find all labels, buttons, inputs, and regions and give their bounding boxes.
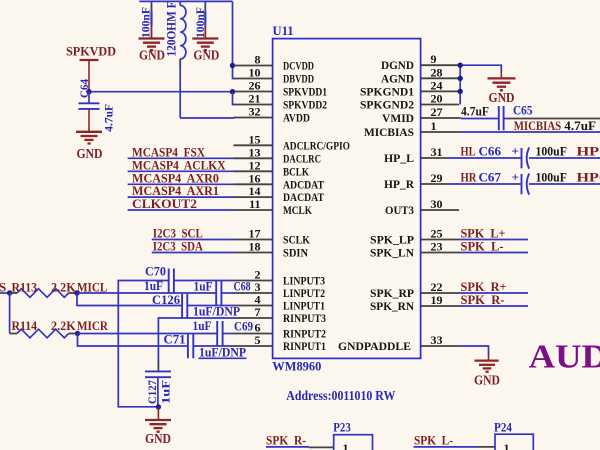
svg-text:1uF: 1uF [159, 380, 173, 404]
wire C68 to pin 3 [221, 292, 233, 294]
svg-text:SPKVDD1: SPKVDD1 [283, 85, 327, 99]
pin 4 LINPUT1 [234, 293, 326, 313]
node junction C127 gnd [156, 404, 161, 409]
pin 12 BCLK [234, 158, 310, 178]
svg-text:SPK R-: SPK R- [266, 433, 306, 448]
pin 24 SPKGND1 [360, 78, 459, 98]
wire net SPK R- [459, 305, 528, 307]
wire digital ground rail (pins 9/28/24/20) [460, 65, 501, 104]
ground (under right 100nF) [192, 39, 219, 64]
svg-text:100uF: 100uF [536, 144, 567, 159]
capacitor C65 4.7uF on VMID [461, 103, 600, 131]
wire to HPOUT left [529, 157, 600, 159]
svg-text:DCVDD: DCVDD [283, 59, 314, 73]
wire vertical rail to SPKVDD2 [233, 92, 236, 105]
svg-text:C69: C69 [234, 319, 253, 334]
svg-text:MICR: MICR [77, 318, 109, 333]
svg-text:C66: C66 [479, 144, 502, 159]
svg-text:SCLK: SCLK [283, 233, 311, 247]
svg-text:SPK_RN: SPK_RN [370, 299, 414, 313]
svg-text:SPKGND2: SPKGND2 [360, 98, 414, 112]
wire C70 to pin 2 [174, 280, 234, 282]
svg-text:C127: C127 [145, 380, 159, 404]
pin 18 SDIN [234, 240, 309, 260]
svg-text:CLKOUT2: CLKOUT2 [132, 196, 197, 211]
svg-text:GND: GND [139, 49, 165, 64]
svg-text:13: 13 [249, 145, 261, 159]
ground (under C127) [145, 407, 171, 447]
pin 25 SPK_LP [370, 227, 459, 247]
svg-text:Address:0011010 RW: Address:0011010 RW [286, 389, 395, 404]
svg-text:+: + [512, 170, 519, 185]
pin 23 SPK_LN [370, 240, 459, 260]
capacitor C (100nF left) [138, 1, 152, 38]
svg-text:GND: GND [77, 147, 103, 162]
pin 26 SPKVDD1 [235, 79, 328, 99]
wire net SPK L+ [459, 239, 528, 241]
pin 7 RINPUT3 [234, 305, 327, 325]
pin 31 HP_L [384, 145, 449, 165]
ground (under C64) [76, 132, 103, 162]
svg-text:100nF: 100nF [138, 7, 152, 38]
svg-text:RINPUT1: RINPUT1 [283, 339, 326, 353]
wire net CLKOUT2 [128, 209, 234, 211]
wire into left edge [0, 292, 10, 294]
svg-text:27: 27 [431, 105, 443, 119]
svg-text:SPKGND1: SPKGND1 [360, 84, 414, 98]
svg-text:WM8960: WM8960 [272, 359, 321, 374]
pin 6 RINPUT2 [234, 321, 327, 341]
wire top supply rail [139, 0, 232, 2]
svg-text:HL: HL [461, 144, 476, 159]
svg-text:30: 30 [431, 197, 443, 211]
pin 13 DACLRC [234, 145, 322, 165]
svg-text:SDIN: SDIN [283, 246, 308, 260]
wire SPK R- to P23 [266, 446, 309, 448]
pin 9 DGND [381, 52, 459, 72]
wire MICL down to LINPUT1 row [77, 293, 182, 306]
pin 1 MICBIAS [364, 119, 459, 139]
wire GNDPADDLE to ground [461, 346, 488, 355]
node junction pin 28 [458, 76, 463, 81]
inductor FB 120OHM ferrite [164, 1, 186, 66]
svg-text:BCLK: BCLK [283, 164, 310, 178]
pin 19 SPK_RN [370, 293, 459, 313]
svg-text:VMID: VMID [382, 111, 414, 125]
svg-text:P23: P23 [333, 420, 351, 435]
svg-text:+: + [512, 144, 519, 159]
svg-text:15: 15 [249, 132, 261, 146]
svg-text:SPK R-: SPK R- [461, 292, 505, 307]
svg-text:2.2K: 2.2K [51, 279, 77, 294]
svg-text:ADCLRC/GPIO: ADCLRC/GPIO [283, 138, 350, 152]
svg-text:R113: R113 [12, 279, 38, 294]
svg-text:SPK L-: SPK L- [414, 433, 453, 448]
node junction R113 left [7, 290, 12, 295]
svg-text:GND: GND [489, 91, 515, 106]
svg-text:GND: GND [193, 49, 219, 64]
pin 28 AGND [381, 65, 459, 85]
wire net MCASP4 AXR0 [128, 183, 234, 185]
svg-text:5: 5 [255, 333, 261, 347]
svg-text:26: 26 [249, 79, 261, 93]
svg-text:AVDD: AVDD [283, 111, 310, 125]
svg-text:OUT3: OUT3 [385, 203, 414, 217]
svg-text:7: 7 [255, 305, 261, 319]
wire net SPK L- [459, 252, 528, 254]
wire net I2C3 SCL [152, 239, 234, 241]
node junction MICR [75, 331, 80, 336]
svg-text:31: 31 [431, 145, 443, 159]
wire C71 to pin 5 [193, 345, 233, 347]
wire net MICBIAS [459, 131, 600, 133]
svg-text:DACLRC: DACLRC [283, 151, 321, 165]
node junction at C64 [86, 89, 91, 94]
power symbol SPKVDD [66, 44, 116, 92]
pin 5 RINPUT1 [234, 333, 327, 353]
ground (under left 100nF) [139, 39, 166, 64]
capacitor C126 1uF/DNP [152, 292, 240, 319]
svg-text:100uF: 100uF [536, 170, 567, 185]
wire ferrite to AVDD [179, 65, 181, 118]
wire net SPK R+ [459, 292, 528, 294]
svg-text:HP_R: HP_R [384, 177, 414, 191]
svg-text:1: 1 [504, 441, 510, 450]
svg-text:1: 1 [343, 441, 349, 450]
svg-text:10: 10 [249, 66, 261, 80]
wire to HPOUT right [529, 183, 600, 185]
pin 17 SCLK [234, 227, 311, 247]
svg-text:12: 12 [249, 158, 261, 172]
pin 11 MCLK [234, 197, 313, 217]
svg-text:DBVDD: DBVDD [283, 72, 314, 86]
pin 21 SPKVDD2 [235, 92, 328, 112]
svg-text:HR: HR [461, 170, 478, 185]
capacitor C66 100uF polarized [479, 144, 567, 169]
wire net MCASP4 ACLKX [128, 170, 234, 172]
svg-text:MICBIAS: MICBIAS [364, 125, 414, 139]
svg-text:SPK_LP: SPK_LP [370, 233, 414, 247]
svg-text:GNDPADDLE: GNDPADDLE [338, 339, 411, 353]
svg-text:MICBIAS: MICBIAS [514, 118, 562, 133]
capacitor C71 1uF/DNP [164, 332, 247, 360]
wire MICR to C69 [78, 333, 218, 335]
pin 29 HP_R [384, 171, 449, 191]
wire HP_L [449, 157, 521, 159]
svg-text:RINPUT3: RINPUT3 [283, 311, 326, 325]
pin 32 AVDD [234, 105, 311, 125]
pin 16 ADCDAT [234, 171, 325, 191]
IC U11 body [273, 39, 421, 359]
svg-text:33: 33 [431, 333, 443, 347]
wire net MCASP4 AXR1 [128, 196, 234, 198]
pin 33 GNDPADDLE [338, 333, 461, 353]
capacitor C64 4.7uF [77, 79, 116, 132]
svg-text:HPOUT2R: HPOUT2R [577, 170, 600, 185]
svg-text:MICL: MICL [77, 279, 108, 294]
node junction pin 9 [458, 62, 463, 67]
svg-text:SPKVDD: SPKVDD [66, 44, 116, 59]
connector P24 [494, 420, 533, 450]
svg-text:GND: GND [145, 432, 171, 447]
connector P23 [333, 420, 372, 450]
wire net MCASP4 FSX [128, 157, 234, 159]
svg-text:1uF: 1uF [193, 318, 212, 333]
pin 14 DACDAT [234, 184, 325, 204]
svg-text:R114: R114 [12, 318, 38, 333]
svg-text:DGND: DGND [381, 58, 414, 72]
wire ground bus left (LINPUT3 to C127 gnd) [118, 281, 168, 407]
svg-text:S: S [0, 279, 6, 294]
ground (right of IC) [488, 71, 516, 106]
wire net I2C3 SDA [152, 252, 234, 254]
svg-text:1uF: 1uF [144, 278, 163, 293]
wire RINPUT3 row to C127 [158, 318, 233, 360]
svg-text:SPK L-: SPK L- [461, 239, 504, 254]
pin 3 LINPUT2 [234, 280, 326, 300]
resistor R114 2.2K [10, 318, 78, 338]
wire vertical rail to DCVDD/DBVDD [233, 1, 236, 78]
capacitor C68 1uF [194, 278, 251, 305]
svg-text:C68: C68 [234, 279, 251, 294]
pin 30 OUT3 [385, 197, 459, 217]
pin 27 VMID [382, 105, 461, 125]
capacitor C67 100uF polarized [479, 170, 567, 195]
svg-text:19: 19 [431, 293, 443, 307]
wire C69 to pin 6 [223, 333, 234, 335]
pin 15 ADCLRC/GPIO [234, 132, 351, 152]
svg-text:SPKVDD2: SPKVDD2 [283, 98, 327, 112]
resistor R113 2.2K [10, 279, 77, 297]
capacitor C69 1uF [193, 318, 254, 346]
svg-text:17: 17 [249, 227, 261, 241]
svg-text:HPOUT2L: HPOUT2L [577, 144, 600, 159]
ground (GNDPADDLE) [474, 355, 500, 389]
svg-text:C70: C70 [145, 264, 166, 279]
svg-text:2.2K: 2.2K [51, 318, 77, 333]
node junction at pin 26 [230, 89, 235, 94]
svg-text:C65: C65 [513, 103, 533, 118]
svg-text:C126: C126 [152, 292, 180, 307]
svg-text:21: 21 [249, 92, 261, 106]
svg-text:20: 20 [431, 92, 443, 106]
svg-text:1: 1 [431, 119, 437, 133]
svg-text:AUDIO: AUDIO [529, 338, 600, 375]
pin 10 DBVDD [235, 66, 315, 86]
svg-text:4.7uF: 4.7uF [564, 118, 596, 133]
svg-text:SPK_LN: SPK_LN [370, 246, 414, 260]
svg-text:8: 8 [255, 53, 261, 67]
svg-text:C64: C64 [77, 79, 91, 98]
svg-text:29: 29 [431, 171, 443, 185]
pin 8 DCVDD [234, 53, 315, 73]
svg-text:32: 32 [249, 105, 261, 119]
svg-text:C67: C67 [479, 170, 502, 185]
capacitor C (100nF right) [193, 1, 207, 38]
svg-text:24: 24 [431, 78, 443, 92]
svg-text:C71: C71 [164, 332, 186, 347]
svg-text:1uF: 1uF [194, 278, 213, 293]
svg-text:DACDAT: DACDAT [283, 190, 324, 204]
svg-text:AGND: AGND [381, 71, 414, 85]
capacitor C127 1uF [145, 371, 173, 407]
svg-text:GND: GND [474, 373, 500, 388]
svg-text:120OHM F: 120OHM F [164, 1, 179, 56]
pin 22 SPK_RP [370, 280, 459, 300]
svg-text:11: 11 [249, 197, 260, 211]
svg-text:18: 18 [249, 240, 261, 254]
svg-text:HP_L: HP_L [384, 151, 414, 165]
wire C126 to pin 4 [187, 305, 233, 307]
node junction at pin 8 [230, 63, 235, 68]
svg-text:P24: P24 [494, 420, 512, 435]
capacitor C70 1uF [144, 264, 174, 294]
svg-text:4.7uF: 4.7uF [102, 104, 116, 132]
svg-text:SPK_RP: SPK_RP [370, 286, 414, 300]
wire SPKVDD rail [89, 91, 233, 93]
svg-text:U11: U11 [273, 23, 294, 38]
svg-text:14: 14 [249, 184, 261, 198]
svg-text:22: 22 [431, 280, 443, 294]
wire HP_R [449, 183, 521, 185]
svg-text:4.7uF: 4.7uF [461, 104, 489, 119]
svg-text:MCLK: MCLK [283, 203, 313, 217]
svg-text:100nF: 100nF [193, 7, 207, 38]
svg-text:I2C3 SDA: I2C3 SDA [153, 239, 203, 254]
pin 2 LINPUT3 [234, 268, 326, 288]
svg-text:28: 28 [431, 65, 443, 79]
svg-text:9: 9 [431, 52, 437, 66]
svg-text:25: 25 [431, 227, 443, 241]
node junction MICL [74, 290, 79, 295]
pin 20 SPKGND2 [360, 92, 459, 112]
wire MICL to C68 [77, 292, 216, 294]
wire SPK L- to P24 [414, 446, 479, 448]
node junction pin 24 [458, 89, 463, 94]
wire MICR down to RINPUT1 row [78, 334, 188, 347]
svg-text:23: 23 [431, 240, 443, 254]
wire bus R113 left to R114 left [9, 293, 11, 334]
